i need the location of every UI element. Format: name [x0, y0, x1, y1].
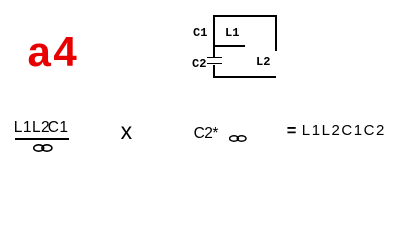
capacitor C2 bottom plate — [207, 63, 222, 65]
equals sign — [287, 123, 297, 140]
wire left upper (branch C1) — [213, 15, 215, 58]
label C1 — [193, 27, 207, 39]
wire bottom — [213, 76, 276, 78]
wire right (branch L2) — [275, 15, 277, 51]
expression C2* — [194, 126, 218, 142]
wire left lower — [213, 65, 215, 78]
fraction numerator L1L2C1 — [14, 120, 69, 136]
wire middle (branch L1) — [214, 45, 245, 47]
fraction bar — [15, 138, 69, 140]
wire top — [213, 15, 276, 17]
label C2 — [192, 58, 206, 70]
infinity denominator — [33, 144, 53, 152]
label L2 — [256, 56, 270, 68]
title a4 — [28, 31, 80, 73]
result L1L2C1C2 — [302, 123, 386, 138]
multiplication sign x — [121, 120, 133, 143]
infinity in expression — [229, 135, 247, 142]
capacitor C2 top plate — [207, 57, 222, 59]
label L1 — [225, 27, 239, 39]
